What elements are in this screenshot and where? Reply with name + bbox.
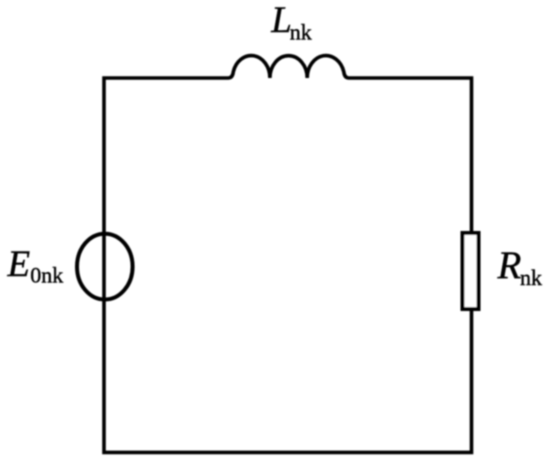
voltage source E_0nk (circle) [77,234,133,300]
svg-text:L: L [270,0,292,41]
svg-text:R: R [497,244,522,287]
svg-text:E: E [7,244,31,285]
resistor R_nk (box) [463,233,479,309]
svg-text:nk: nk [520,265,542,290]
svg-text:0nk: 0nk [30,262,63,287]
svg-text:nk: nk [290,19,312,44]
wire: circuit loop with inductor L_nk on top side [104,56,472,453]
